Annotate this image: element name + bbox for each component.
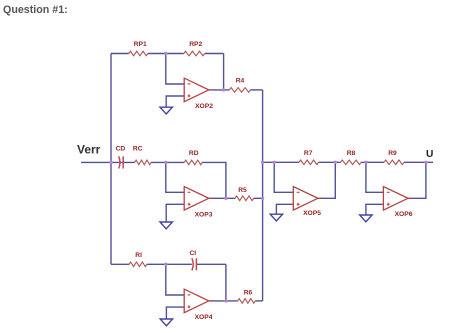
junction [334,161,337,164]
resistor R4 [229,77,250,92]
svg-text:RD: RD [189,150,199,157]
resistor R9 [384,150,404,165]
junction [224,299,227,302]
junction [164,161,167,164]
wire XOP4 non-inverting input [166,307,184,319]
junction [261,197,264,200]
wire XOP6 inverting input [366,162,384,192]
wire bottom feedback vertical [225,264,227,301]
resistor RP2 [184,41,205,56]
wire XOP4 output to R6 [212,300,238,302]
wire R9 to output U [404,161,433,163]
ground [160,222,172,229]
svg-text:R6: R6 [244,290,253,297]
resistor RI [129,252,147,266]
svg-text:XOP4: XOP4 [195,314,213,321]
resistor R5 [235,187,254,201]
svg-text:XOP3: XOP3 [195,211,213,218]
wire XOP4 inverting input [166,264,184,295]
wire XOP3 inverting input [166,162,184,192]
svg-text:R9: R9 [388,150,397,157]
junction [224,197,227,200]
op-amp XOP4 [184,289,213,321]
junction [164,263,167,266]
resistor R6 [238,290,255,304]
svg-text:R7: R7 [304,150,313,157]
svg-text:Question #1:: Question #1: [3,4,68,16]
ground [160,107,172,114]
wire XOP5 feedback from R7 [320,162,335,198]
wire R5 to right bus [254,197,263,199]
svg-text:RI: RI [135,252,142,259]
capacitor CI [189,250,196,270]
junction [364,161,367,164]
junction [261,161,264,164]
wire XOP5 non-inverting input [276,204,293,214]
junction [424,161,427,164]
svg-text:R5: R5 [238,187,247,194]
capacitor CD [116,146,126,169]
wire R8 to R9 [361,161,384,163]
svg-text:CD: CD [116,146,126,153]
svg-text:RP1: RP1 [134,41,147,48]
resistor RP1 [129,41,148,56]
wire Verr input rail [81,161,119,163]
svg-text:CI: CI [189,250,196,257]
wire XOP6 feedback from R9 [412,162,426,198]
resistor RC [133,146,151,165]
junction [273,161,276,164]
ground [270,214,282,221]
wire R4 to right bus [250,89,262,91]
wire XOP6 non-inverting input [366,204,384,215]
wire RD right to feedback vertical [202,162,226,198]
wire XOP2 non-inverting input [166,96,184,107]
wire XOP5 inverting input [274,162,293,192]
wire R7 to R8 [319,161,341,163]
svg-text:XOP6: XOP6 [395,211,413,218]
wire XOP2 output to R4 [213,89,230,91]
op-amp XOP6 [383,187,412,218]
wire top rail [111,53,129,55]
op-amp XOP3 [184,187,213,219]
svg-text:RP2: RP2 [189,41,202,48]
resistor RD [184,150,202,165]
wire right summing bus vertical [262,90,264,301]
wire bottom rail [111,263,129,265]
svg-text:R4: R4 [236,77,245,84]
wire XOP3 output to R5 [212,197,236,199]
op-amp XOP5 [293,187,322,218]
svg-text:R8: R8 [347,150,356,157]
wire XOP2 inverting input [166,54,184,85]
junction [222,88,225,91]
svg-text:U: U [426,149,433,160]
ground [360,215,372,222]
svg-text:RC: RC [133,146,143,153]
resistor R8 [341,150,362,165]
junction [164,52,167,55]
resistor R7 [299,150,319,165]
svg-text:Verr: Verr [77,142,101,156]
wire summing node to R7 [263,161,299,163]
op-amp XOP2 [184,78,213,110]
ground [160,319,172,326]
junction [109,161,112,164]
svg-text:XOP2: XOP2 [195,103,213,110]
wire top feedback vertical [223,54,225,90]
svg-text:XOP5: XOP5 [303,210,321,217]
wire R6 to right bus [255,300,262,302]
wire XOP3 non-inverting input [166,204,184,222]
wire left input bus vertical [110,54,112,265]
